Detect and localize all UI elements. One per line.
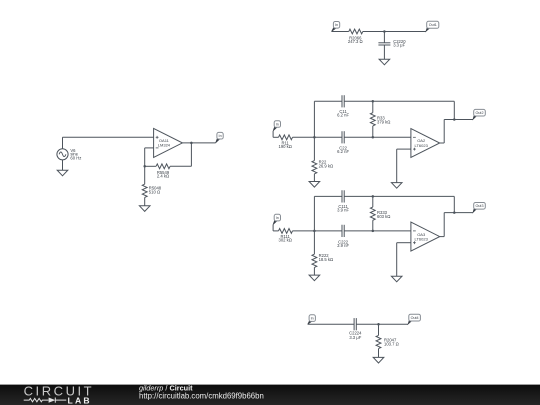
svg-text:190 kΩ: 190 kΩ xyxy=(279,144,292,149)
svg-text:LT6023: LT6023 xyxy=(415,143,429,148)
svg-text:http://circuitlab.com/cmkd69f9: http://circuitlab.com/cmkd69f9b66bn xyxy=(139,392,264,401)
svg-text:Out3: Out3 xyxy=(476,204,484,208)
svg-text:379 kΩ: 379 kΩ xyxy=(377,119,390,124)
svg-text:3.9 nF: 3.9 nF xyxy=(337,208,349,213)
svg-text:103.7 Ω: 103.7 Ω xyxy=(384,342,399,347)
svg-text:247.3 Ω: 247.3 Ω xyxy=(348,39,363,44)
svg-text:3.9 nF: 3.9 nF xyxy=(337,243,349,248)
svg-text:6.2 nF: 6.2 nF xyxy=(337,149,349,154)
svg-text:60 Hz: 60 Hz xyxy=(70,156,81,161)
svg-text:In: In xyxy=(335,23,338,27)
svg-text:18.5 kΩ: 18.5 kΩ xyxy=(319,257,334,262)
svg-text:2.4 kΩ: 2.4 kΩ xyxy=(157,174,169,179)
svg-text:LT6023: LT6023 xyxy=(415,236,429,241)
svg-text:LAB: LAB xyxy=(68,396,92,405)
svg-text:Out2: Out2 xyxy=(476,111,484,115)
svg-text:6.2 nF: 6.2 nF xyxy=(337,113,349,118)
svg-text:302 kΩ: 302 kΩ xyxy=(279,237,292,242)
svg-text:In: In xyxy=(276,216,279,220)
svg-text:3.3 μF: 3.3 μF xyxy=(349,335,361,340)
svg-text:3.3 μF: 3.3 μF xyxy=(393,43,405,48)
svg-text:Out4: Out4 xyxy=(411,316,419,320)
svg-text:Out1: Out1 xyxy=(429,23,437,27)
svg-text:In: In xyxy=(219,134,222,138)
svg-text:603 kΩ: 603 kΩ xyxy=(377,214,390,219)
svg-text:In: In xyxy=(276,122,279,126)
svg-text:510 Ω: 510 Ω xyxy=(149,189,160,194)
svg-text:LM324: LM324 xyxy=(158,143,171,148)
svg-text:In: In xyxy=(311,317,314,321)
svg-text:26.9 kΩ: 26.9 kΩ xyxy=(319,164,334,169)
